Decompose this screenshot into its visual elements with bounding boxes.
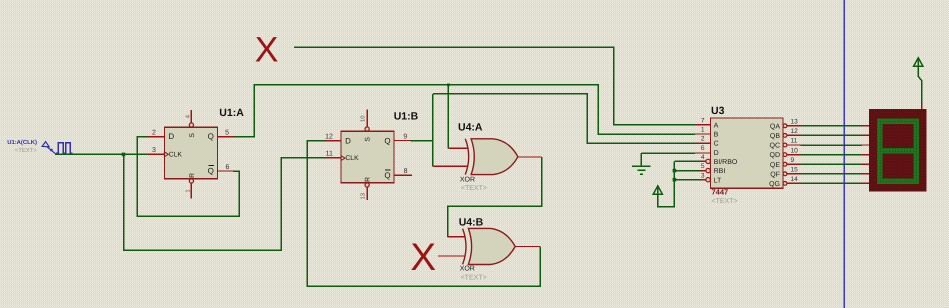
svg-text:QD: QD bbox=[770, 152, 781, 159]
svg-text:B: B bbox=[714, 132, 719, 139]
pin 5 RBI bbox=[700, 170, 706, 172]
clock triangle U1:B bbox=[341, 156, 345, 161]
power terminal near display bbox=[914, 58, 923, 77]
svg-text:XOR: XOR bbox=[460, 177, 475, 184]
wire QA to display bbox=[800, 125, 862, 127]
pin 1 R bubble bbox=[189, 179, 193, 183]
svg-text:11: 11 bbox=[791, 138, 798, 145]
U3 output labels bbox=[769, 123, 780, 188]
pin 1 R stub bbox=[190, 183, 192, 199]
svg-text:RBI: RBI bbox=[714, 168, 726, 175]
wire net Q2 to 7447 C bbox=[433, 94, 695, 143]
wire net Q2: U1:B Q to trunk bbox=[411, 140, 433, 142]
pin 5 Q stub bbox=[217, 136, 233, 138]
7447 U3 body bbox=[711, 118, 783, 188]
pin 10 S bubble bbox=[365, 127, 369, 131]
svg-text:8: 8 bbox=[404, 168, 408, 175]
xor gate U4:A body bbox=[471, 139, 518, 175]
clock waveform symbol bbox=[56, 143, 72, 154]
pin 3 CLK stub bbox=[148, 153, 165, 155]
U3 input labels bbox=[714, 122, 738, 184]
wire QC to display bbox=[800, 144, 862, 146]
svg-text:D: D bbox=[714, 150, 719, 157]
pin 9 Q stub bbox=[394, 140, 411, 142]
wire U4:B output to U1:B D bbox=[307, 141, 540, 287]
svg-text:QA: QA bbox=[770, 123, 780, 130]
wire clock to U1:B CLK bbox=[124, 154, 327, 250]
svg-text:S: S bbox=[189, 133, 196, 138]
svg-text:CLK: CLK bbox=[169, 151, 183, 158]
xor gate U4:B body bbox=[468, 228, 515, 264]
wire 7447 RBI row bbox=[674, 170, 700, 172]
svg-text:U1:B: U1:B bbox=[394, 111, 419, 123]
svg-text:<TEXT>: <TEXT> bbox=[15, 147, 37, 154]
svg-text:X: X bbox=[410, 236, 436, 279]
pin 13 R stub bbox=[366, 187, 368, 200]
7-segment digit 8 upper loop bbox=[880, 121, 916, 150]
pin 10 S stub bbox=[366, 110, 368, 127]
svg-text:13: 13 bbox=[791, 119, 799, 126]
ground bbox=[632, 153, 650, 174]
svg-text:<TEXT>: <TEXT> bbox=[461, 185, 487, 192]
wire U1:A Qbar feedback to D bbox=[137, 137, 239, 216]
flip-flop U1:B body bbox=[341, 131, 394, 183]
U3 right active-low bubbles bbox=[783, 124, 787, 185]
svg-text:U3: U3 bbox=[711, 105, 725, 117]
svg-text:C: C bbox=[714, 141, 719, 148]
svg-text:6: 6 bbox=[701, 145, 705, 152]
xor gate U4:A extra input arc bbox=[465, 139, 468, 175]
svg-text:6: 6 bbox=[226, 164, 230, 171]
wire QB to display bbox=[800, 134, 862, 136]
pin 8 Qbar stub (unconnected) bbox=[394, 174, 411, 176]
wire net Q1 branch to U4:A upper input bbox=[447, 85, 449, 149]
wire 7447 BI/RBO row bbox=[674, 160, 700, 162]
svg-text:R: R bbox=[189, 173, 196, 178]
pin 12 D stub bbox=[326, 140, 341, 142]
pin 6 Qbar stub bbox=[217, 170, 233, 172]
svg-text:5: 5 bbox=[225, 130, 229, 137]
node clock junction bbox=[122, 153, 126, 157]
svg-text:U1:A(CLK): U1:A(CLK) bbox=[7, 139, 37, 146]
svg-text:QC: QC bbox=[770, 143, 781, 150]
wire U4:A output to U4:B upper input bbox=[448, 157, 542, 237]
xor gate U4:B input stubs bbox=[438, 237, 540, 256]
svg-text:11: 11 bbox=[326, 151, 333, 158]
svg-text:3: 3 bbox=[152, 147, 156, 154]
U1:B Qbar overline bbox=[385, 169, 391, 171]
svg-text:Q: Q bbox=[384, 171, 390, 180]
svg-text:13: 13 bbox=[360, 193, 367, 199]
7-segment display body bbox=[869, 109, 926, 191]
svg-text:2: 2 bbox=[701, 136, 705, 143]
pin 11 CLK stub bbox=[326, 157, 341, 159]
pin 3 LT bbox=[700, 179, 706, 181]
svg-text:10: 10 bbox=[791, 147, 799, 154]
svg-text:QF: QF bbox=[770, 171, 780, 178]
U1:A pin numbers bbox=[152, 130, 230, 171]
node Q1 junction bbox=[447, 84, 450, 87]
svg-text:Q: Q bbox=[208, 166, 214, 175]
pin 2 D stub bbox=[148, 136, 165, 138]
clock triangle U1:A bbox=[164, 152, 168, 157]
wire QF to display bbox=[800, 173, 862, 175]
svg-text:D: D bbox=[168, 132, 174, 141]
svg-text:12: 12 bbox=[325, 134, 333, 141]
7-segment display pin stubs bbox=[862, 104, 922, 184]
pin 7 A bbox=[695, 124, 711, 126]
svg-text:D: D bbox=[345, 136, 351, 145]
svg-text:1: 1 bbox=[701, 127, 705, 134]
pin 6 D bbox=[695, 152, 711, 154]
node RBI junction bbox=[673, 169, 677, 173]
U1:B pin names bbox=[345, 136, 391, 182]
svg-text:R: R bbox=[365, 177, 372, 182]
svg-text:7447: 7447 bbox=[712, 187, 729, 196]
pin 13 R bubble bbox=[365, 183, 369, 187]
wire display common anode to power bbox=[918, 66, 921, 103]
pin 4 S stub bbox=[190, 110, 192, 123]
svg-text:7: 7 bbox=[701, 117, 705, 124]
svg-text:A: A bbox=[714, 122, 719, 129]
xor gate U4:B extra input arc bbox=[463, 229, 466, 265]
svg-text:12: 12 bbox=[791, 128, 799, 135]
pin 4 S bubble bbox=[189, 123, 193, 127]
pin 1 B bbox=[695, 133, 711, 135]
pin 8 dangling tip bbox=[411, 174, 412, 176]
node LT junction bbox=[673, 178, 677, 182]
svg-text:3: 3 bbox=[701, 172, 705, 179]
svg-text:9: 9 bbox=[791, 157, 795, 164]
U1:B pin numbers bbox=[325, 133, 407, 175]
svg-text:Q: Q bbox=[208, 132, 214, 141]
U3 left pin stubs bbox=[695, 125, 711, 180]
junction dots bbox=[122, 84, 676, 182]
svg-text:1: 1 bbox=[185, 189, 191, 192]
wire 7447 LT row bbox=[674, 179, 700, 181]
svg-text:4: 4 bbox=[701, 154, 705, 161]
svg-text:Q: Q bbox=[384, 136, 390, 145]
wire QD to display bbox=[800, 154, 862, 156]
clock generator cone bbox=[42, 142, 49, 147]
wire QE to display bbox=[800, 163, 862, 165]
wire net Q1: U1:A Q to 7447 B bbox=[233, 85, 695, 137]
pin 4 BI/RBO bbox=[700, 160, 706, 162]
xor gate U4:A input stubs bbox=[433, 148, 542, 166]
wire QG to display bbox=[800, 182, 862, 184]
svg-text:U4:B: U4:B bbox=[459, 217, 484, 229]
svg-text:U1:A: U1:A bbox=[219, 107, 244, 119]
svg-text:QG: QG bbox=[769, 181, 780, 188]
U3 right pin numbers bbox=[791, 119, 799, 184]
U1:A Qbar overline bbox=[208, 165, 214, 167]
svg-text:2: 2 bbox=[152, 130, 156, 137]
svg-text:<TEXT>: <TEXT> bbox=[461, 275, 487, 282]
svg-text:9: 9 bbox=[403, 133, 407, 140]
svg-text:QE: QE bbox=[770, 162, 780, 169]
svg-text:<TEXT>: <TEXT> bbox=[712, 198, 738, 205]
svg-text:QB: QB bbox=[770, 133, 780, 140]
U3 left active-low bubbles bbox=[706, 159, 710, 182]
wire clock main bbox=[55, 153, 147, 155]
svg-text:XOR: XOR bbox=[460, 265, 475, 272]
svg-text:CLK: CLK bbox=[345, 155, 359, 162]
wire 7447 D to ground bbox=[641, 152, 695, 154]
flip-flop U1:A body bbox=[164, 127, 217, 179]
7-segment digit 8 lower loop bbox=[880, 151, 916, 182]
wire power trunk to 7447 control pins bbox=[658, 161, 675, 206]
svg-text:5: 5 bbox=[701, 163, 705, 170]
wire net A: X line to 7447 A bbox=[294, 47, 695, 125]
svg-text:BI/RBO: BI/RBO bbox=[714, 158, 738, 166]
svg-text:U4:A: U4:A bbox=[458, 122, 483, 134]
svg-text:14: 14 bbox=[791, 176, 799, 183]
U1:A pin names bbox=[168, 132, 214, 178]
sheet border (blue) bbox=[843, 0, 845, 308]
svg-text:X: X bbox=[255, 29, 279, 69]
wire net Q2 vertical trunk bbox=[432, 94, 434, 167]
svg-text:10: 10 bbox=[360, 116, 367, 122]
pin 2 C bbox=[695, 142, 711, 144]
svg-text:S: S bbox=[365, 137, 372, 142]
svg-text:LT: LT bbox=[714, 177, 722, 184]
U3 right pin stubs bbox=[787, 126, 800, 184]
svg-text:15: 15 bbox=[791, 167, 799, 174]
power terminal near 7447 bbox=[653, 186, 662, 207]
U3 left pin numbers bbox=[701, 117, 705, 179]
